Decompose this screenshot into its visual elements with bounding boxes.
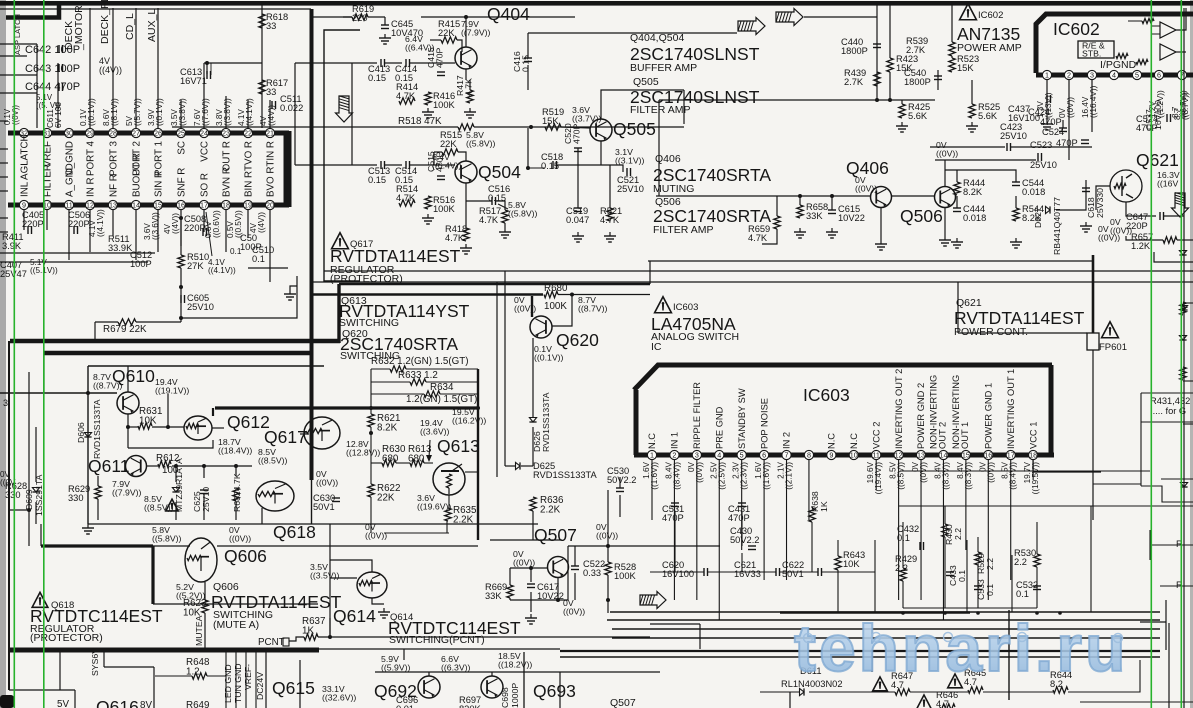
box R/E STB bbox=[1078, 41, 1114, 58]
svg-text:1K: 1K bbox=[819, 501, 829, 512]
svg-text:INVERTING OUT 1: INVERTING OUT 1 bbox=[1006, 369, 1016, 449]
svg-text:17: 17 bbox=[1007, 451, 1015, 460]
op-amp B bbox=[1160, 44, 1176, 60]
ground R418 bbox=[465, 244, 467, 248]
resistor right r2 bbox=[1180, 367, 1186, 380]
svg-text:SWITCHING(PCNT): SWITCHING(PCNT) bbox=[389, 634, 485, 646]
svg-text:2: 2 bbox=[1067, 71, 1071, 80]
svg-text:1000P: 1000P bbox=[510, 683, 520, 708]
resistor R528 bbox=[605, 562, 611, 575]
svg-text:1800P: 1800P bbox=[904, 77, 931, 87]
svg-text:0.33: 0.33 bbox=[583, 568, 601, 578]
wire ic603 pin6 down bbox=[763, 460, 765, 580]
svg-text:PRE GND: PRE GND bbox=[714, 406, 724, 449]
svg-text:FILTER AMP: FILTER AMP bbox=[653, 224, 713, 236]
warning triangle Q617 bbox=[332, 233, 349, 249]
svg-text:((0V)): ((0V)) bbox=[855, 184, 877, 194]
svg-text:470P: 470P bbox=[1040, 117, 1062, 127]
box R431 bbox=[1141, 392, 1193, 394]
wire x1169 btm bbox=[1168, 623, 1170, 708]
bus thick y284 bbox=[339, 283, 650, 286]
ground R417 bbox=[469, 108, 471, 112]
capacitor C520 vert bbox=[574, 147, 582, 149]
svg-text:23: 23 bbox=[222, 129, 230, 138]
resistor R529 rot bbox=[975, 552, 981, 565]
IC601 pin 20 bbox=[265, 200, 274, 209]
wire right stubs bbox=[1183, 302, 1193, 304]
wire dc24 v bbox=[265, 652, 267, 708]
svg-text:C524: C524 bbox=[1042, 127, 1064, 137]
svg-text:0.1: 0.1 bbox=[1016, 589, 1029, 599]
svg-text:220P: 220P bbox=[68, 219, 90, 229]
svg-text:(PROTECTOR): (PROTECTOR) bbox=[330, 273, 403, 285]
wire ic603 pin2 down bbox=[673, 460, 675, 600]
ground bl bbox=[87, 524, 89, 528]
wire pin-down x136 bbox=[135, 210, 137, 260]
svg-text:680: 680 bbox=[408, 454, 425, 465]
wire ic602 pin2 bbox=[1068, 80, 1070, 160]
capacitor C515 vert bbox=[437, 175, 445, 177]
transistor Q613t bbox=[433, 463, 465, 495]
wire mid btm x700 bbox=[699, 624, 701, 649]
svg-text:Q404: Q404 bbox=[487, 4, 530, 24]
wire y471 right bbox=[900, 470, 1150, 472]
wire q cluster bbox=[127, 414, 129, 448]
ground R416 bbox=[427, 108, 429, 112]
svg-text:Q621: Q621 bbox=[1136, 150, 1179, 170]
wire y649 btm bbox=[319, 648, 560, 650]
IC601 pin 18 bbox=[221, 200, 230, 209]
wire q613 wires bbox=[370, 407, 372, 414]
svg-text:D_GND: D_GND bbox=[64, 141, 75, 175]
svg-text:820K: 820K bbox=[459, 704, 482, 708]
wire q612 right bbox=[212, 427, 224, 429]
svg-text:0.15: 0.15 bbox=[368, 175, 386, 185]
capacitor C615 bbox=[828, 209, 836, 211]
svg-text:RVD1SS133TA: RVD1SS133TA bbox=[92, 399, 102, 459]
svg-text:7: 7 bbox=[785, 451, 789, 460]
resistor R669 bbox=[507, 585, 513, 598]
wire pin-down x69 bbox=[68, 210, 70, 260]
wire q617 link bbox=[300, 433, 309, 435]
svg-text:((0V)): ((0V)) bbox=[316, 478, 338, 488]
svg-text:((7.6V)): ((7.6V)) bbox=[201, 98, 210, 126]
IC601 pin 28 bbox=[108, 128, 117, 137]
IC603 pin 10 bbox=[849, 450, 858, 459]
warning R645 bbox=[948, 674, 963, 688]
svg-text:Q613: Q613 bbox=[437, 436, 480, 456]
ground C519 bbox=[577, 232, 579, 236]
svg-text:5: 5 bbox=[740, 451, 744, 460]
svg-text:((5.9V)): ((5.9V)) bbox=[381, 663, 411, 673]
voltage label above pin x113 bbox=[102, 98, 119, 126]
resistor R659 bbox=[774, 216, 780, 229]
voltage label above pin x181 bbox=[170, 98, 187, 126]
svg-text:2.2: 2.2 bbox=[985, 558, 995, 570]
wire y147 long bbox=[930, 146, 1005, 148]
wire left col x29 bbox=[28, 372, 30, 510]
IC603 pin 3 bbox=[692, 450, 701, 459]
IC603 pin 9 bbox=[827, 450, 836, 459]
arrow hatched 1 bbox=[738, 18, 765, 35]
svg-text:BUFFER AMP: BUFFER AMP bbox=[630, 62, 697, 74]
svg-text:R680: R680 bbox=[544, 283, 568, 294]
svg-text:Q618: Q618 bbox=[273, 522, 316, 542]
resistor R613 bbox=[410, 460, 424, 466]
wire bus y271 bbox=[324, 270, 1193, 272]
transistor Q612 bbox=[184, 416, 212, 440]
svg-text:0.022: 0.022 bbox=[280, 103, 303, 113]
svg-text:AN7135: AN7135 bbox=[957, 24, 1020, 44]
svg-text:0.1: 0.1 bbox=[252, 254, 265, 264]
svg-text:POWER CONT.: POWER CONT. bbox=[954, 326, 1028, 338]
op-amp A bbox=[1160, 22, 1176, 38]
PCNT thick bar bbox=[8, 648, 319, 653]
diode D609 bbox=[32, 488, 39, 493]
svg-text:((3.6V)): ((3.6V)) bbox=[420, 427, 450, 437]
svg-text:STANDBY SW: STANDBY SW bbox=[737, 388, 747, 449]
resistor R544 bbox=[1013, 208, 1019, 221]
svg-text:INL AGLATCH: INL AGLATCH bbox=[19, 134, 30, 197]
resistor R514 bbox=[399, 200, 415, 206]
capacitor C532 bbox=[1033, 585, 1041, 587]
svg-text:2SC1740SRTA: 2SC1740SRTA bbox=[653, 206, 771, 226]
wire ic603 pin1 down bbox=[651, 460, 653, 520]
svg-text:10V22: 10V22 bbox=[838, 213, 865, 223]
svg-text:25V47: 25V47 bbox=[0, 269, 27, 279]
transistor Q606 bbox=[185, 538, 217, 582]
IC603 pin label 15 bbox=[951, 375, 970, 449]
transistor Q507 bbox=[548, 557, 569, 578]
green line 4 bbox=[1181, 0, 1183, 708]
resistor R523 bbox=[949, 58, 955, 72]
svg-text:16V33: 16V33 bbox=[734, 569, 761, 579]
bottom-left corner block bbox=[0, 695, 14, 708]
IC601 pin 23 bbox=[221, 128, 230, 137]
svg-text:220P: 220P bbox=[22, 219, 44, 229]
svg-text:330: 330 bbox=[5, 490, 21, 500]
resistor R644 bbox=[1053, 687, 1068, 693]
svg-text:15: 15 bbox=[962, 451, 970, 460]
wire left col vert x37 bbox=[36, 44, 38, 128]
resistor R636 bbox=[530, 497, 536, 511]
capacitor C521 bbox=[626, 168, 628, 176]
resistor R643 bbox=[835, 556, 841, 570]
svg-text:((5.7V)): ((5.7V)) bbox=[133, 98, 142, 126]
label 8.7 right bbox=[1173, 92, 1190, 120]
svg-text:100K: 100K bbox=[433, 204, 456, 214]
label 0.1V left bbox=[3, 105, 20, 125]
svg-text:11: 11 bbox=[65, 201, 72, 210]
wire q505 area bbox=[600, 141, 602, 165]
svg-text:18: 18 bbox=[222, 201, 230, 210]
svg-text:18: 18 bbox=[1029, 451, 1037, 460]
wire gnd bundle 226 bbox=[225, 652, 227, 708]
capacitor C611 label bbox=[46, 102, 63, 128]
ground q507 bbox=[530, 614, 532, 618]
svg-text:10K: 10K bbox=[139, 416, 157, 427]
resistor R518 bbox=[458, 124, 474, 130]
IC603 pin 8 bbox=[804, 450, 813, 459]
svg-text:2.2: 2.2 bbox=[953, 528, 963, 540]
diode right m2 bbox=[1179, 336, 1186, 341]
wire x295 v bbox=[294, 63, 296, 165]
resistor R631 bbox=[138, 423, 152, 429]
svg-text:RVTDTA114EST: RVTDTA114EST bbox=[330, 246, 461, 266]
svg-text:5.6K: 5.6K bbox=[978, 111, 998, 121]
transistor Q620 bbox=[530, 316, 552, 338]
svg-text:2SC1740SRTA: 2SC1740SRTA bbox=[653, 165, 771, 185]
svg-text:((3.8V)): ((3.8V)) bbox=[178, 98, 187, 126]
IC602 pin volt 1159 bbox=[1148, 90, 1165, 118]
svg-text:((8.7V)): ((8.7V)) bbox=[1181, 92, 1190, 120]
svg-text:Q616: Q616 bbox=[96, 697, 139, 708]
bus thick bar B y353 bbox=[44, 351, 313, 356]
svg-text:TIN R: TIN R bbox=[265, 141, 276, 167]
resistor R680 bbox=[544, 291, 558, 297]
wire sys6v box bbox=[103, 652, 105, 667]
svg-text:Q505: Q505 bbox=[613, 119, 656, 139]
svg-text:MUTEA: MUTEA bbox=[194, 615, 204, 646]
svg-text:((0V)): ((0V)) bbox=[936, 149, 958, 159]
wire pin-down x47 bbox=[46, 210, 48, 230]
IC603 pin 1 bbox=[647, 450, 656, 459]
wire bus y282 bbox=[311, 281, 1193, 283]
svg-text:22K: 22K bbox=[438, 28, 455, 38]
wire thin top y9 bbox=[0, 8, 311, 10]
svg-text:30: 30 bbox=[65, 129, 73, 138]
IC601 pin 26 bbox=[153, 128, 162, 137]
wire opamp feed bbox=[1176, 8, 1186, 30]
IC603 pin volt 6 bbox=[754, 461, 771, 489]
svg-text:SO R: SO R bbox=[199, 173, 210, 197]
bus thick y407 bbox=[215, 406, 478, 409]
green line 2 bbox=[43, 0, 45, 708]
IC603 pin volt 11 bbox=[866, 461, 883, 494]
svg-text:((4.1V)): ((4.1V)) bbox=[208, 266, 236, 275]
wire gnd bundle 236 bbox=[235, 652, 237, 708]
wire top to Q404 bbox=[311, 16, 352, 18]
svg-text:((5.8V)): ((5.8V)) bbox=[508, 209, 538, 219]
wire cluster br bbox=[902, 522, 904, 568]
svg-text:((19.1V)): ((19.1V)) bbox=[155, 386, 189, 396]
wire y702 btm bbox=[1080, 701, 1193, 703]
IC603 pin volt 15 bbox=[956, 461, 973, 489]
svg-text:13: 13 bbox=[109, 201, 117, 210]
svg-text:((1.6V)): ((1.6V)) bbox=[762, 462, 771, 490]
svg-text:100K: 100K bbox=[614, 571, 637, 581]
svg-text:VCC: VCC bbox=[199, 141, 210, 162]
wire ladder box bbox=[371, 368, 390, 370]
svg-text:RVTDTA114EST: RVTDTA114EST bbox=[954, 308, 1085, 328]
voltage label above pin x226 bbox=[215, 98, 232, 126]
ground C645 bbox=[384, 34, 386, 38]
IC601 pin 30 bbox=[64, 128, 73, 137]
svg-text:3: 3 bbox=[695, 451, 699, 460]
wire busR y612 bbox=[610, 611, 1160, 613]
bus thick bar A y341 bbox=[10, 339, 340, 344]
svg-text:RB441Q40T77: RB441Q40T77 bbox=[1052, 197, 1062, 255]
capacitor C544 bbox=[1012, 181, 1020, 183]
IC601 pin 27 bbox=[131, 128, 140, 137]
wire q507 bbox=[509, 568, 511, 585]
right page edge strip bbox=[1190, 0, 1193, 708]
IC601 pin 25 bbox=[176, 128, 185, 137]
svg-text:N.C: N.C bbox=[827, 433, 837, 449]
svg-text:0.047: 0.047 bbox=[566, 215, 589, 225]
resistor R619 bbox=[352, 14, 368, 20]
svg-text:IN 2: IN 2 bbox=[782, 432, 792, 449]
wire ic603 pin5 down bbox=[741, 460, 743, 550]
resistor R521 bbox=[607, 208, 613, 221]
capacitor C645 bbox=[381, 24, 389, 26]
wire q692 bus bbox=[375, 671, 660, 673]
wire q504 emi bbox=[465, 183, 467, 228]
wire y524 bbox=[88, 523, 538, 525]
wire q610 base bbox=[0, 392, 117, 394]
IC603 pin label 14 bbox=[928, 375, 947, 449]
IC602 pin 2 bbox=[1064, 70, 1073, 79]
wire vert x505 bbox=[504, 271, 506, 466]
wire q504 wires bbox=[352, 164, 377, 166]
svg-text:CD_L: CD_L bbox=[124, 13, 136, 40]
IC603 pin volt 5 bbox=[732, 461, 749, 489]
wire left col x9 bbox=[8, 341, 10, 690]
svg-text:4.7K: 4.7K bbox=[396, 91, 416, 101]
wire pin-down x113 bbox=[112, 210, 114, 236]
wire busR y638 bbox=[612, 637, 1160, 639]
wire x95 v bbox=[94, 322, 96, 341]
svg-text:4: 4 bbox=[1112, 71, 1116, 80]
svg-text:22K: 22K bbox=[440, 139, 457, 149]
svg-text:0.1: 0.1 bbox=[230, 247, 242, 256]
wire ic603 pin17 down bbox=[1010, 460, 1012, 580]
svg-text:INVERTING OUT 2: INVERTING OUT 2 bbox=[894, 369, 904, 449]
capacitor C618 bbox=[1082, 187, 1090, 189]
voltage label above pin x136 bbox=[125, 98, 142, 126]
svg-text:1.2(GN) 1.5(GT): 1.2(GN) 1.5(GT) bbox=[406, 394, 477, 405]
svg-text:((4V)): ((4V)) bbox=[171, 213, 180, 234]
wire pin-down x226 bbox=[225, 210, 227, 252]
svg-text:IN 1: IN 1 bbox=[670, 432, 680, 449]
capacitor C522 bbox=[571, 565, 579, 567]
svg-text:((18.2V)): ((18.2V)) bbox=[498, 660, 532, 670]
wire ic603 pin11 down bbox=[875, 460, 877, 490]
wire btm left v1 bbox=[74, 690, 76, 708]
svg-text:16: 16 bbox=[984, 451, 992, 460]
svg-text:Q504: Q504 bbox=[478, 162, 521, 182]
transistor Q611 bbox=[126, 456, 147, 477]
svg-text:IC603: IC603 bbox=[803, 385, 850, 405]
wire q504 col bbox=[458, 152, 466, 161]
svg-text:Q614: Q614 bbox=[333, 606, 376, 626]
svg-text:((19.4V)): ((19.4V)) bbox=[874, 462, 883, 495]
svg-text:RIPPLE FILTER: RIPPLE FILTER bbox=[692, 382, 702, 449]
svg-text:((0V)): ((0V)) bbox=[986, 462, 995, 483]
svg-text:16V100: 16V100 bbox=[662, 569, 694, 579]
svg-text:22: 22 bbox=[244, 129, 252, 138]
wire vert x352 bbox=[351, 63, 353, 165]
resistor R430 rot bbox=[942, 524, 948, 537]
svg-text:((3.8V)): ((3.8V)) bbox=[223, 98, 232, 126]
svg-text:POWER GND 1: POWER GND 1 bbox=[984, 383, 994, 449]
label 0.5V rot bbox=[226, 210, 243, 238]
resistor R658 bbox=[797, 205, 803, 218]
wire br right box bbox=[1140, 621, 1166, 623]
svg-text:PCNT: PCNT bbox=[258, 637, 285, 648]
resistor R525 bbox=[969, 104, 975, 118]
svg-text:4.7K: 4.7K bbox=[600, 215, 620, 225]
transistor Q692 bbox=[418, 676, 440, 698]
svg-text:((16V: ((16V bbox=[1157, 179, 1178, 189]
svg-text:10K: 10K bbox=[843, 559, 860, 569]
svg-text:15K: 15K bbox=[542, 116, 559, 126]
IC603 pin 7 bbox=[782, 450, 791, 459]
wire ic603 pin13 down bbox=[920, 460, 922, 600]
svg-text:2.2: 2.2 bbox=[895, 563, 908, 573]
svg-text:((2.3V)): ((2.3V)) bbox=[740, 462, 749, 490]
svg-text:3.9K: 3.9K bbox=[2, 241, 22, 251]
svg-text:LED GND: LED GND bbox=[223, 664, 233, 703]
svg-text:Q693: Q693 bbox=[533, 681, 576, 701]
wire vert x497 bbox=[496, 282, 498, 477]
wire y160 long bbox=[935, 159, 1036, 161]
svg-text:27: 27 bbox=[132, 129, 140, 138]
wire pin-down x158 bbox=[157, 210, 159, 252]
wire pin-up x158 bbox=[157, 8, 159, 128]
svg-text:((7.9V)): ((7.9V)) bbox=[112, 488, 142, 498]
wire ic603 pin16 down bbox=[987, 460, 989, 600]
label 4V rot2 bbox=[163, 213, 180, 234]
IC603 pin volt 2 bbox=[664, 461, 681, 489]
diode mark2 bbox=[1180, 483, 1187, 488]
capacitor C533 rot bbox=[974, 585, 982, 587]
voltage label above pin x204 bbox=[193, 98, 210, 126]
ground R425 bbox=[901, 122, 903, 126]
svg-text:22K: 22K bbox=[377, 493, 395, 504]
svg-text:0.15: 0.15 bbox=[541, 161, 559, 171]
svg-text:8.2K: 8.2K bbox=[377, 423, 398, 434]
resistor R618 bbox=[259, 14, 265, 28]
transistor Q617 bbox=[304, 417, 340, 449]
wire fp column bbox=[1092, 255, 1095, 333]
resistor R417 bbox=[467, 90, 473, 103]
svg-text:4.7: 4.7 bbox=[936, 699, 949, 708]
svg-text:((0V)): ((0V)) bbox=[229, 534, 251, 544]
svg-text:((16.4V)): ((16.4V)) bbox=[1089, 85, 1098, 118]
voltage label above pin x248 bbox=[237, 98, 254, 126]
svg-text:2.2: 2.2 bbox=[1014, 557, 1027, 567]
svg-text:R6824.7K: R6824.7K bbox=[232, 473, 242, 512]
svg-text:4: 4 bbox=[717, 451, 721, 460]
resistor R623 bbox=[202, 600, 208, 613]
svg-text:2.2K: 2.2K bbox=[540, 505, 561, 516]
resistor R530 bbox=[1034, 554, 1040, 567]
wire pin-up x181 bbox=[180, 100, 182, 128]
IC601 pin 14 bbox=[131, 200, 140, 209]
label 4V rot3 bbox=[249, 212, 266, 233]
IC603 pin volt 17 bbox=[1001, 461, 1018, 489]
arrow hatched down right bbox=[1172, 193, 1189, 217]
svg-text:25V10: 25V10 bbox=[201, 487, 211, 512]
wire x262 vertical bbox=[261, 5, 263, 128]
svg-text:PORT 3: PORT 3 bbox=[108, 140, 119, 176]
capacitor C518 bbox=[552, 161, 554, 169]
wire stub y44 bbox=[0, 43, 37, 45]
warning R646 bbox=[917, 695, 932, 708]
svg-text:TUN GND: TUN GND bbox=[233, 663, 243, 703]
IC602 pin 3 bbox=[1087, 70, 1096, 79]
